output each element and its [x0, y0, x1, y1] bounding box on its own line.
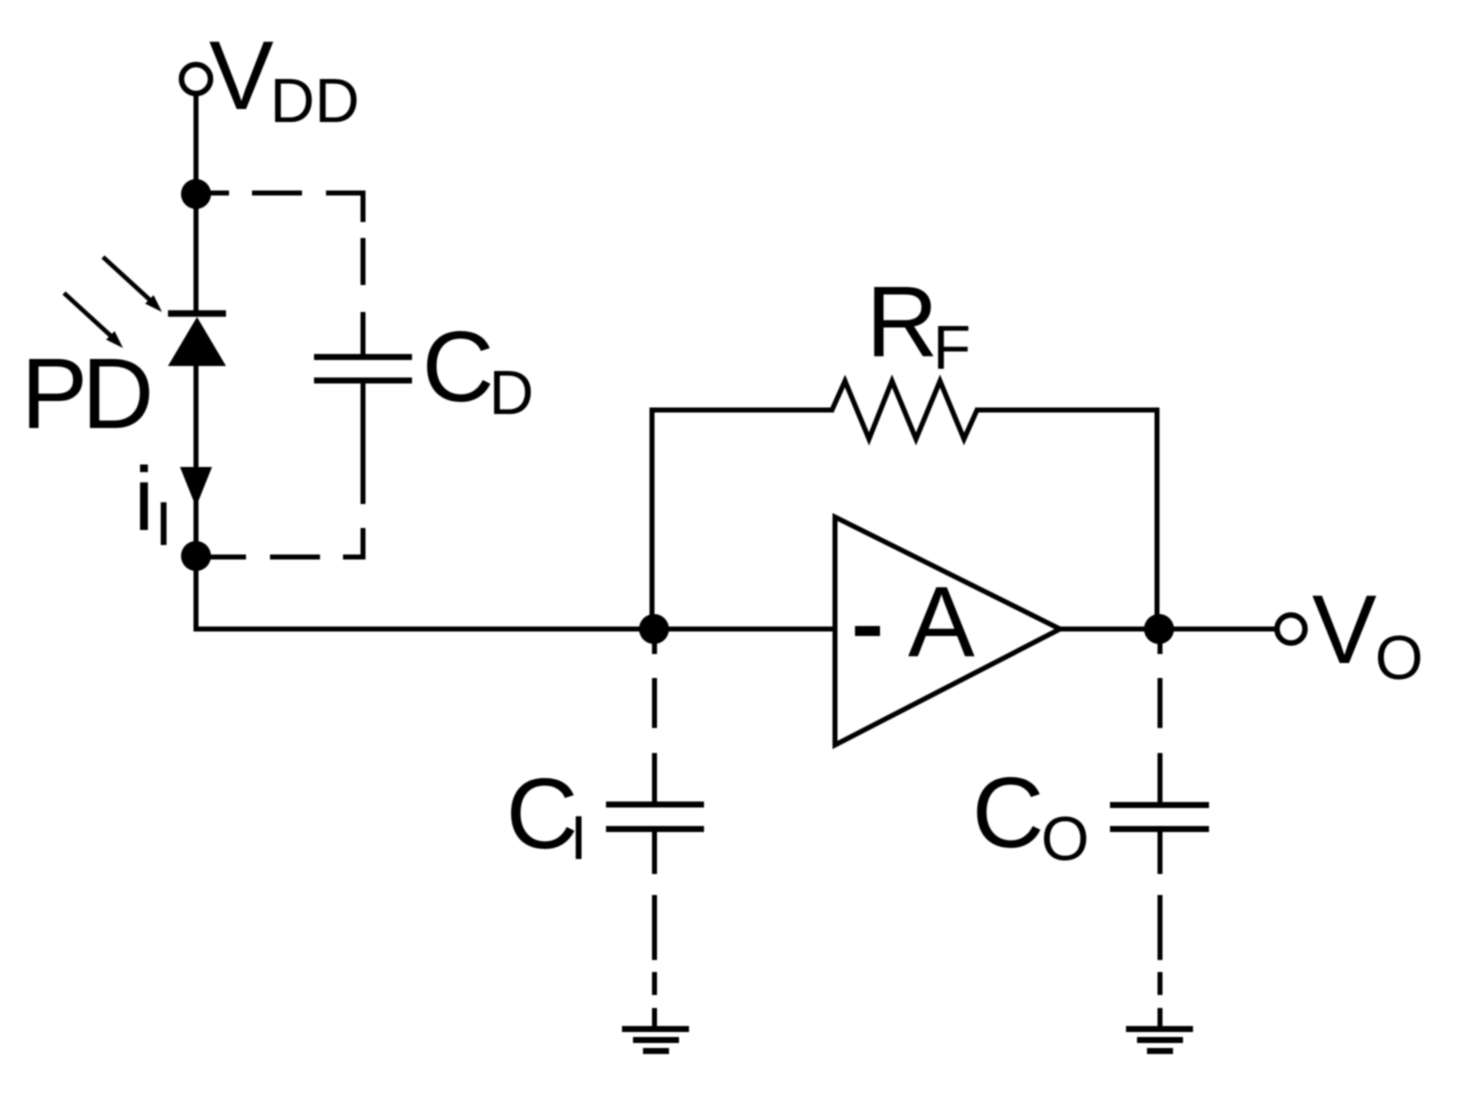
dashed wire CO to ground [1158, 895, 1163, 1029]
ground right [1126, 1029, 1193, 1051]
svg-text:O: O [1375, 624, 1423, 693]
capacitor CI [606, 805, 704, 875]
label CI [506, 758, 587, 873]
dashed wire output node to CO [1158, 629, 1163, 805]
op-amp A [835, 517, 1060, 745]
label VDD [209, 21, 360, 136]
capacitor CD [314, 341, 412, 437]
svg-text:C: C [422, 311, 494, 423]
wire photodiode to node 2 [194, 364, 199, 556]
current arrow iI [180, 467, 212, 507]
svg-text:i: i [134, 450, 154, 550]
node 1 junction [181, 179, 211, 209]
svg-text:V: V [209, 21, 274, 130]
svg-text:C: C [972, 757, 1044, 869]
feedback wire left [652, 410, 834, 629]
label CO [972, 757, 1089, 874]
dashed wire CD bottom [196, 437, 363, 557]
label RF [866, 266, 971, 383]
label VO [1312, 575, 1423, 693]
dashed wire CD top [196, 193, 363, 341]
svg-text:DD: DD [270, 67, 360, 136]
op-amp minus sign [855, 626, 880, 636]
node 2 junction [181, 541, 211, 571]
output wire [1060, 627, 1277, 632]
resistor RF [832, 381, 977, 439]
feedback wire right [975, 410, 1157, 629]
wire VDD to node 1 [194, 93, 199, 196]
svg-text:I: I [155, 490, 172, 559]
terminal VO [1277, 615, 1305, 643]
svg-text:F: F [933, 314, 971, 383]
svg-text:R: R [866, 266, 938, 378]
dashed wire input node to CI [652, 629, 657, 805]
svg-text:A: A [908, 566, 975, 678]
wire node 2 to input node [196, 556, 835, 629]
dashed wire CI to ground [652, 895, 657, 1029]
input node junction [639, 614, 669, 644]
svg-text:D: D [489, 359, 534, 428]
svg-text:PD: PD [21, 338, 150, 450]
terminal VDD [182, 65, 211, 94]
photodiode PD [64, 257, 226, 366]
svg-text:C: C [506, 758, 578, 870]
svg-text:I: I [570, 804, 587, 873]
label iI [134, 450, 172, 559]
capacitor CO [1110, 805, 1209, 874]
svg-text:O: O [1041, 805, 1089, 874]
output node junction [1144, 614, 1174, 644]
ground left [622, 1029, 689, 1051]
wire node 1 to photodiode [194, 194, 199, 311]
label CD [422, 311, 534, 428]
svg-text:V: V [1312, 575, 1377, 684]
